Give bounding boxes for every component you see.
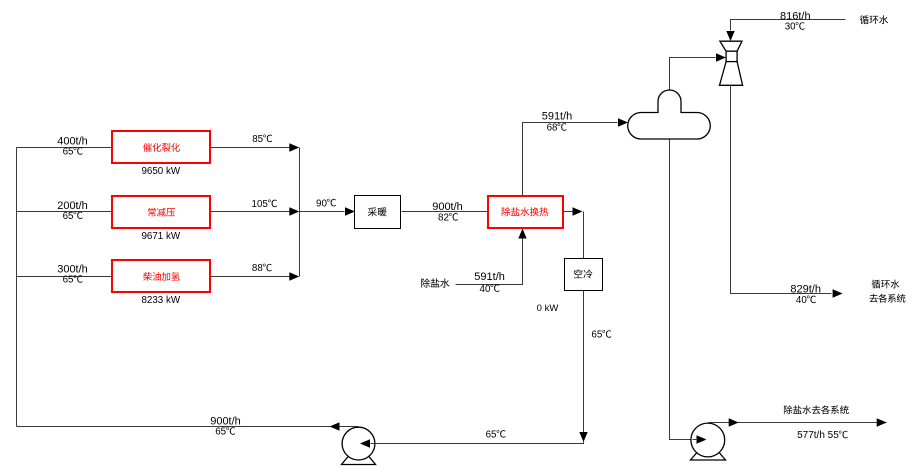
svg-text:30: 30 bbox=[785, 22, 796, 33]
wire: hot water supply main (left vertical) bbox=[16, 148, 18, 427]
unit block: atmospheric-vacuum distillation bbox=[112, 196, 210, 228]
wire: demin exchanger right outlet bbox=[564, 211, 573, 213]
svg-text:65: 65 bbox=[63, 211, 74, 222]
svg-text:8233 kW: 8233 kW bbox=[141, 295, 180, 306]
svg-text:400t/h: 400t/h bbox=[57, 135, 88, 147]
cooling tower ejector: diffuser bbox=[720, 62, 743, 86]
svg-text:900t/h: 900t/h bbox=[432, 201, 463, 213]
wire: demin water inlet bbox=[456, 239, 523, 285]
svg-text:829t/h: 829t/h bbox=[790, 284, 821, 296]
wire: demin exchanger top outlet up then right bbox=[523, 123, 618, 197]
wire: unit 3 outlet bbox=[211, 276, 299, 278]
cooling tower ejector: throat bbox=[726, 51, 737, 61]
label: atmospheric-vacuum unit bbox=[148, 208, 175, 217]
label: catalytic cracking bbox=[143, 143, 180, 152]
label: circulating water out line 1 bbox=[872, 280, 900, 289]
wire: down to air cooler bbox=[583, 212, 585, 259]
svg-text:65: 65 bbox=[591, 330, 602, 341]
arrowhead demin water to systems bbox=[877, 418, 887, 426]
svg-text:65: 65 bbox=[486, 430, 497, 441]
wire: stub into pump 2 bbox=[693, 439, 698, 441]
wire: branch to unit 1 bbox=[17, 147, 113, 149]
arrowhead unit 3 outlet into collector bbox=[289, 272, 299, 280]
svg-text:816t/h: 816t/h bbox=[780, 10, 811, 22]
svg-text:591t/h: 591t/h bbox=[474, 271, 505, 283]
label: demin water to systems bbox=[784, 405, 849, 414]
wire: pump 2 discharge bbox=[709, 422, 887, 424]
wire: air cooler outlet down bbox=[583, 291, 585, 433]
wire: heating unit to demin exchanger bbox=[402, 211, 489, 213]
label: heating bbox=[368, 207, 387, 216]
svg-text:65: 65 bbox=[63, 147, 74, 158]
svg-text:9650 kW: 9650 kW bbox=[141, 166, 180, 177]
arrowhead after pump 2 bbox=[729, 418, 739, 426]
svg-text:65: 65 bbox=[63, 275, 74, 286]
arrowhead into ejector top bbox=[726, 31, 734, 41]
wire: unit 2 outlet bbox=[211, 211, 299, 213]
svg-text:9671 kW: 9671 kW bbox=[141, 231, 180, 242]
svg-text:88: 88 bbox=[252, 263, 263, 274]
label: air cooler bbox=[574, 269, 593, 278]
unit block: catalytic cracking bbox=[112, 131, 210, 163]
arrowhead unit 1 outlet into collector bbox=[289, 143, 299, 151]
heating unit box bbox=[355, 196, 401, 229]
wire: collector vertical bbox=[299, 148, 301, 277]
wire: vessel bottom to pump 2 bbox=[670, 140, 695, 440]
wire: circulating water supply top bbox=[731, 20, 846, 31]
label: demin water inlet bbox=[421, 278, 449, 287]
label: diesel hydrotreater bbox=[143, 272, 180, 281]
wire: bottom return to pump 1 bbox=[371, 442, 584, 444]
svg-text:591t/h: 591t/h bbox=[542, 111, 573, 123]
arrowhead into pump 1 bbox=[360, 439, 370, 447]
svg-text:900t/h: 900t/h bbox=[210, 415, 241, 427]
arrowhead circulating water out bbox=[833, 289, 843, 297]
wire: branch to unit 2 bbox=[17, 211, 113, 213]
label: circulating water (top right) bbox=[860, 15, 888, 24]
svg-text:82: 82 bbox=[438, 213, 449, 224]
wire: pump 1 discharge to main bbox=[17, 426, 359, 428]
svg-text:577t/h 55: 577t/h 55 bbox=[797, 430, 839, 441]
svg-text:40: 40 bbox=[480, 284, 491, 295]
svg-text:90: 90 bbox=[316, 198, 327, 209]
svg-text:0 kW: 0 kW bbox=[537, 303, 559, 314]
wire: vessel top to ejector side bbox=[670, 58, 716, 91]
arrowhead pump 1 discharge bbox=[330, 422, 340, 430]
air cooler box bbox=[565, 259, 603, 291]
wire: ejector outlet down then right bbox=[731, 86, 832, 294]
arrowhead into pump 2 bbox=[697, 435, 707, 443]
svg-text:85: 85 bbox=[252, 134, 263, 145]
pump P1 base bbox=[342, 444, 376, 465]
arrowhead unit 2 outlet into collector bbox=[289, 207, 299, 215]
pump P2 casing bbox=[691, 423, 725, 457]
svg-text:105: 105 bbox=[252, 199, 269, 210]
svg-text:65: 65 bbox=[215, 427, 226, 438]
cooling tower ejector: top funnel bbox=[720, 41, 742, 51]
wire: stub into pump 1 bbox=[371, 443, 378, 445]
vessel: circulating water collection drum bbox=[628, 90, 711, 139]
wire: branch to unit 3 bbox=[17, 276, 113, 278]
label: circulating water out line 2 bbox=[869, 294, 905, 303]
pump P2 base bbox=[691, 440, 726, 461]
arrowhead into exchanger bottom bbox=[518, 229, 526, 239]
svg-text:68: 68 bbox=[547, 123, 558, 134]
arrowhead into heating unit bbox=[345, 207, 355, 215]
arrowhead down to bottom return bbox=[579, 432, 587, 442]
arrowhead into ejector side bbox=[716, 53, 726, 61]
arrowhead right of exchanger bbox=[573, 207, 583, 215]
svg-text:40: 40 bbox=[796, 295, 807, 306]
pump P1 casing bbox=[342, 427, 375, 460]
wire: unit 1 outlet bbox=[211, 147, 299, 149]
wire: collector to heating unit bbox=[300, 211, 345, 213]
demin water heat exchanger box bbox=[488, 196, 563, 228]
label: demin water exchanger bbox=[502, 207, 549, 216]
arrowhead into vessel bbox=[618, 118, 628, 126]
unit block: diesel hydrotreater bbox=[112, 260, 210, 292]
